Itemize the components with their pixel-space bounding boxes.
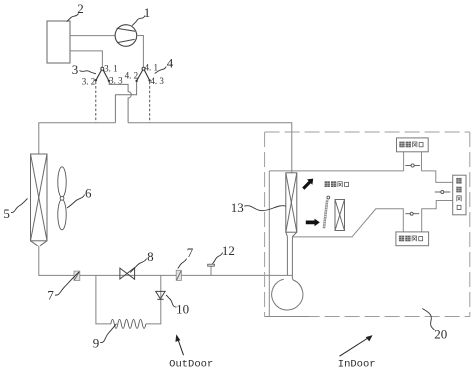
leader for label 8 bbox=[130, 259, 146, 273]
heat exchanger 5 bbox=[31, 154, 48, 246]
black arrow up-right bbox=[302, 179, 313, 190]
compressor U1 circle bbox=[115, 25, 137, 47]
evaporator 13 bbox=[286, 173, 297, 237]
wire 3.3 to right main with hop bbox=[109, 82, 131, 123]
contact dot 3.2 bbox=[95, 79, 97, 81]
svg-text:10: 10 bbox=[176, 302, 189, 317]
check valve 10 bbox=[156, 291, 165, 299]
switch 4 lever to 4.2 bbox=[137, 70, 143, 81]
defrost outlet branch walls bbox=[404, 152, 422, 171]
damper pivot circle bbox=[327, 196, 330, 199]
face outlet damper symbol bbox=[435, 191, 451, 194]
svg-text:OutDoor: OutDoor bbox=[169, 359, 213, 371]
leader for label 10 bbox=[166, 295, 177, 307]
leader for label 7 left bbox=[55, 272, 79, 295]
indoor unit box 20 dashed border right bbox=[469, 132, 471, 317]
switch 3 lever to 3.2 bbox=[96, 70, 102, 80]
svg-text:3. 2: 3. 2 bbox=[82, 77, 96, 87]
svg-text:4: 4 bbox=[167, 56, 174, 71]
duct top wall right part bbox=[422, 171, 453, 183]
leader for label 20 bbox=[422, 309, 434, 331]
svg-text:7: 7 bbox=[47, 288, 54, 303]
drain channel left line bbox=[286, 237, 288, 276]
svg-text:9: 9 bbox=[93, 336, 100, 351]
svg-text:12: 12 bbox=[222, 243, 235, 258]
InDoor arrow bbox=[340, 335, 373, 356]
switch 4 pivot bbox=[142, 67, 145, 70]
svg-text:4. 2: 4. 2 bbox=[125, 71, 139, 81]
wire 4.2 to left main bbox=[115, 82, 136, 123]
expansion valve 8 bowtie bbox=[120, 268, 135, 280]
wire rect2 to switch 3 bbox=[70, 51, 102, 67]
foot outlet box bbox=[396, 232, 429, 246]
leader for label 13 bbox=[244, 206, 286, 211]
duct top wall left part bbox=[269, 170, 403, 172]
fan 6 blade bottom bbox=[58, 199, 66, 229]
svg-text:5: 5 bbox=[3, 206, 10, 221]
indoor unit box 20 dashed border bottom bbox=[265, 316, 470, 318]
svg-text:InDoor: InDoor bbox=[338, 359, 376, 371]
fan 6 hub bbox=[60, 196, 64, 200]
drain channel right line with blower curl bbox=[272, 237, 303, 310]
defrost branch damper symbol bbox=[405, 164, 420, 167]
defrost outlet box bbox=[397, 138, 429, 152]
svg-text:4. 3: 4. 3 bbox=[150, 76, 164, 86]
duct left wall bbox=[268, 171, 270, 317]
contact dot 4.2 bbox=[135, 80, 137, 82]
indoor unit box 20 dashed border left bbox=[264, 132, 266, 317]
coil 9 bbox=[111, 319, 146, 328]
compressor chord lower bbox=[117, 39, 134, 42]
leader for label 6 bbox=[67, 195, 85, 209]
leader for label 1 bbox=[132, 16, 145, 26]
leader for label 5 bbox=[11, 199, 28, 213]
main pipe right segment bbox=[128, 123, 292, 173]
foot outlet label tiles bbox=[399, 236, 423, 242]
leader for label 9 bbox=[100, 324, 116, 343]
leader for label 12 bbox=[213, 253, 223, 264]
OutDoor arrow bbox=[175, 334, 183, 355]
svg-text:6: 6 bbox=[85, 186, 92, 201]
switch 3 pivot bbox=[101, 67, 104, 70]
leader for label 7 right bbox=[178, 259, 187, 269]
wire rect2 to compressor bbox=[70, 35, 115, 37]
leader for label 3 bbox=[80, 71, 97, 74]
face outlet box bbox=[453, 175, 466, 215]
dashed wire from 3.2 bbox=[95, 82, 97, 123]
contact dot 4.3 bbox=[148, 79, 150, 81]
svg-text:4. 1: 4. 1 bbox=[145, 63, 159, 73]
defrost outlet label tiles bbox=[399, 142, 423, 148]
black arrow right bbox=[306, 219, 320, 227]
leader for label 4 bbox=[155, 67, 167, 74]
switch 4 lever to 4.3 bbox=[144, 70, 149, 80]
svg-text:3. 1: 3. 1 bbox=[104, 63, 118, 73]
damper striped blade bbox=[324, 200, 327, 229]
svg-text:20: 20 bbox=[434, 326, 447, 341]
bottom pipe from HX to indoor bbox=[39, 246, 293, 276]
wire compressor to switch 4 bbox=[137, 36, 144, 68]
duct lower wall with ramp bbox=[292, 209, 403, 237]
fan 6 blade top bbox=[58, 167, 66, 197]
heater core bbox=[335, 200, 345, 231]
filter 7 right bbox=[176, 270, 181, 280]
pressure sensor 12 stub bbox=[210, 266, 212, 275]
face outlet label tiles vertical bbox=[456, 178, 461, 210]
dashed wire from 4.3 bbox=[149, 82, 151, 123]
foot outlet damper symbol bbox=[405, 212, 419, 215]
pressure sensor 12 bar bbox=[208, 264, 215, 266]
duct lower right steps bbox=[422, 201, 453, 232]
svg-text:1: 1 bbox=[144, 5, 151, 20]
temperature damper label tiles bbox=[325, 181, 349, 187]
svg-text:3: 3 bbox=[72, 62, 79, 77]
svg-text:7: 7 bbox=[187, 245, 194, 260]
svg-text:8: 8 bbox=[147, 249, 154, 264]
switch 3 lever to 3.3 bbox=[103, 70, 109, 81]
compressor chord upper bbox=[117, 28, 136, 31]
contact dot 3.3 bbox=[108, 80, 110, 82]
wire coil to check valve riser bbox=[146, 275, 161, 324]
leader for label 2 bbox=[67, 14, 79, 22]
branch wire down to coil bbox=[96, 275, 111, 324]
filter 7 left bbox=[74, 271, 80, 280]
duct bottom solid segment bbox=[265, 316, 310, 318]
component 2 rectangle (accumulator) bbox=[47, 21, 70, 63]
indoor unit box 20 dashed border top bbox=[265, 131, 470, 133]
main pipe left segment bbox=[39, 123, 116, 154]
svg-text:13: 13 bbox=[231, 200, 244, 215]
